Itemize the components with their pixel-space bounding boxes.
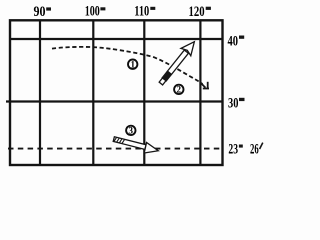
label 90deg <box>34 4 52 20</box>
label circled 2 <box>174 85 183 95</box>
label 23deg 26min <box>228 142 262 158</box>
arrowhead of dashed arrow 1 (hook pointing down) <box>202 82 209 89</box>
svg-text:26: 26 <box>250 142 259 158</box>
parallel 40N <box>9 38 223 40</box>
label 120deg <box>189 4 211 20</box>
label circled 3 <box>126 126 135 136</box>
svg-text:23: 23 <box>228 142 238 158</box>
label 40deg <box>228 33 245 49</box>
meridian 110E <box>143 20 145 165</box>
meridian 90E <box>39 20 41 165</box>
label 30deg <box>228 95 245 111</box>
map border frame <box>10 20 223 165</box>
svg-text:2: 2 <box>177 85 182 95</box>
tropic of cancer dashed line 23deg26min <box>8 148 222 150</box>
svg-text:3: 3 <box>129 126 134 136</box>
svg-text:110: 110 <box>134 4 149 20</box>
parallel 30N <box>6 100 223 102</box>
svg-text:120: 120 <box>189 4 205 20</box>
svg-text:40: 40 <box>228 33 239 49</box>
meridian 100E <box>92 20 94 165</box>
meridian 120E <box>199 20 201 165</box>
svg-text:90: 90 <box>34 4 46 20</box>
svg-text:30: 30 <box>228 95 238 111</box>
label circled 1 <box>128 59 137 69</box>
big outlined arrow 2 pointing NE with banded tail <box>156 38 199 88</box>
svg-text:1: 1 <box>130 59 135 69</box>
dashed curved arrow path 1 <box>52 47 203 84</box>
outlined arrow 3 pointing ESE with hatched tail <box>112 135 159 157</box>
svg-text:100: 100 <box>85 4 100 20</box>
label 110deg <box>134 4 155 20</box>
label 100deg <box>85 4 106 20</box>
